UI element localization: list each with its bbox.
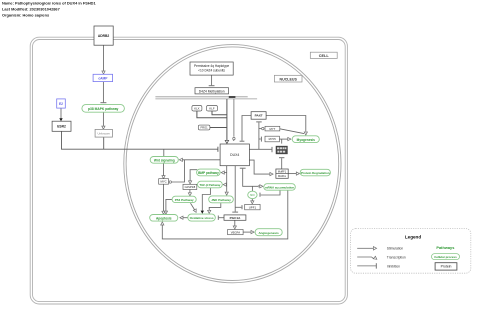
wire PAX7 to Myogenesis — [266, 116, 306, 132]
open arrow into CASP3/8 — [189, 181, 192, 184]
open arrow into P53 pathway — [188, 193, 191, 196]
wire DUX4 to MuRF1 group — [249, 160, 269, 174]
wire DUX4 inhibits dark target group — [249, 148, 271, 150]
wire DUX4 inhibits PGC1A with UPF1 branch — [234, 166, 236, 212]
svg-text:MYT: MYT — [270, 127, 276, 131]
T-bar DUX4 inhibits UPF1 — [241, 205, 243, 209]
svg-text:Pathways: Pathways — [436, 245, 454, 250]
node MYOD1 — [265, 126, 280, 131]
svg-text:Legend: Legend — [405, 234, 422, 239]
node PGC1A — [224, 215, 246, 220]
svg-text:Last Modified: 20230301042867: Last Modified: 20230301042867 — [2, 7, 60, 12]
header text — [2, 1, 96, 18]
svg-text:ESR2: ESR2 — [57, 125, 66, 129]
wire cAMP inhibits p38 — [102, 82, 104, 103]
svg-text:Oxidative stress: Oxidative stress — [190, 216, 214, 220]
svg-text:FRG1: FRG1 — [201, 126, 209, 130]
node E2 (metabolite, blue) — [57, 99, 66, 108]
node Permissive 4q Haplotype — [190, 62, 233, 75]
open arrow into BMP pathway — [221, 171, 224, 174]
svg-text:Protein Degradation: Protein Degradation — [301, 171, 330, 175]
D4Z4 repeat locus lines — [155, 97, 257, 99]
transcription arrowhead into DUX4 (circle style) — [233, 137, 235, 139]
wire MYF5 to Myogenesis — [279, 138, 288, 140]
wire PGC1A inhibits Oxidative stress — [219, 217, 224, 219]
svg-text:CELL: CELL — [319, 54, 330, 58]
svg-text:PAX7: PAX7 — [255, 114, 263, 118]
svg-text:UPF1: UPF1 — [249, 205, 257, 209]
legend stimulation row — [357, 247, 373, 249]
svg-text:Protein: Protein — [441, 265, 452, 269]
svg-text:KLF: KLF — [209, 106, 214, 110]
wire branch from inhibition line into Wnt signaling — [163, 149, 165, 156]
open arrow into VEGFA — [233, 226, 236, 229]
wire PGC1A to VEGFA — [234, 220, 236, 226]
open arrow into Apoptosis from below — [161, 222, 164, 225]
wire MYC to Apoptosis — [163, 184, 165, 211]
node ESR2 — [52, 121, 71, 131]
svg-text:Stimulation: Stimulation — [387, 247, 403, 251]
svg-text:ADRB2: ADRB2 — [98, 34, 110, 38]
open arrow into cAMP — [102, 71, 105, 74]
T-bar into NO right — [259, 193, 261, 197]
svg-text:Cellular process: Cellular process — [434, 255, 457, 259]
wire E2 to ESR2 — [60, 108, 62, 118]
open arrow into Oxidative stress from P53 (diagonal) — [193, 209, 196, 213]
open arrow into MuRF1 group — [270, 173, 273, 176]
legend transcription row — [357, 257, 373, 259]
node cAMP (metabolite, blue) — [93, 74, 113, 81]
NUCLEUS label — [274, 75, 302, 82]
wire VEGFA to Angiogenesis — [243, 231, 251, 233]
node PAX7 — [251, 112, 266, 120]
node KLX — [192, 106, 202, 112]
open arrow into Oxidative stress from JNK — [208, 210, 211, 213]
T-bar ESR2/Unknown inhibit DUX4 — [217, 147, 219, 152]
wire Permissive inhibits D4Z4 methylation — [211, 75, 213, 85]
svg-text:DUX4: DUX4 — [230, 153, 239, 157]
svg-text:Apoptosis: Apoptosis — [156, 216, 172, 220]
T-bar inhibition on p38 — [100, 102, 106, 104]
svg-text:mRNA accumulation: mRNA accumulation — [265, 186, 294, 190]
node ADRB2 — [94, 26, 113, 45]
process Myogenesis — [292, 136, 319, 143]
T-bar PGC1A inhibits Oxidative stress — [217, 216, 219, 220]
svg-text:Name: Pathophysiological roles: Name: Pathophysiological roles of DUX4 i… — [2, 1, 96, 6]
wire DUX4 to Wnt signaling with MYC branch — [182, 159, 221, 161]
pathway Wnt signaling — [150, 157, 178, 164]
svg-text:Unknown: Unknown — [97, 132, 110, 136]
nucleus (double ellipse) — [124, 45, 341, 283]
circle arrowhead into MYOD1 — [262, 127, 264, 129]
svg-text:MuRF1: MuRF1 — [278, 171, 287, 174]
wire branch tick below MYF5 line — [281, 139, 283, 143]
svg-text:E2: E2 — [59, 102, 63, 106]
T-bar DUX4 inhibits PAX7 — [256, 121, 262, 123]
wire JNK pathway to Oxidative stress — [209, 203, 221, 211]
pathway TGF-b pathway — [198, 181, 223, 188]
open arrow into Protein Degradation — [296, 172, 299, 175]
node MuRF1 / MAFbx group — [276, 169, 288, 178]
DUX4 gene tick on D4Z4 line — [229, 96, 236, 98]
pathway p38 MAPK pathway — [82, 105, 125, 113]
wire mRNA accumulation to Apoptosis (long elbow) — [162, 190, 287, 239]
wire DUX4 T-bar up / mRNA accumulation / NO riser — [243, 169, 260, 187]
wire DUX4 to TGF-b pathway — [225, 184, 227, 186]
wire mRNA accumulation inhibits NO — [261, 190, 280, 195]
open arrow into TGF-b pathway — [223, 183, 226, 186]
node D4Z4 Methylation — [195, 88, 229, 94]
svg-text:VEGFA: VEGFA — [231, 230, 240, 234]
process mRNA accumulation — [264, 184, 296, 191]
wire MuRF1 group inhibits dark target group — [281, 158, 283, 169]
circle arrowhead into MYC — [169, 181, 171, 183]
svg-text:TGF-β Pathway: TGF-β Pathway — [199, 183, 220, 187]
process Angiogenesis — [255, 229, 282, 236]
process Apoptosis — [150, 215, 178, 222]
node DUX4 — [220, 144, 249, 166]
process NO — [248, 191, 257, 198]
open arrow into JNK pathway — [225, 192, 228, 195]
wire NO to UPF1 — [251, 199, 253, 201]
svg-text:<10 D4Z4 subunits: <10 D4Z4 subunits — [198, 69, 225, 73]
node MYC — [159, 179, 169, 185]
arrow into DUX4 top (transcription main) — [225, 140, 228, 143]
svg-text:BMP pathway: BMP pathway — [198, 171, 219, 175]
wire CASP3/8 to P53 pathway — [189, 190, 191, 193]
wire second transcription line into DUX4 — [233, 99, 235, 137]
svg-text:Wnt signaling: Wnt signaling — [154, 159, 175, 163]
svg-text:CASP3/8: CASP3/8 — [185, 185, 196, 189]
T-bar PAX7 inhibits DUX4 — [240, 140, 245, 142]
legend Cellular process — [432, 254, 460, 260]
svg-text:Angiogenesis: Angiogenesis — [258, 231, 279, 235]
process Protein Degradation — [300, 169, 330, 176]
wire DUX4 inhibits PAX7, MYF5, activates MYOD1 (riser) — [258, 122, 260, 149]
svg-text:MYF5: MYF5 — [269, 137, 277, 141]
svg-text:Inhibition: Inhibition — [387, 264, 400, 268]
pathway BMP pathway — [197, 169, 221, 176]
svg-text:Transcription: Transcription — [387, 255, 406, 259]
open arrow into mRNA accumulation — [260, 185, 263, 188]
open arrow into Apoptosis from MYC line — [162, 211, 165, 214]
node FRG1 — [198, 125, 210, 130]
svg-text:NUCLEUS: NUCLEUS — [280, 77, 298, 81]
open arrow into Apoptosis from Oxidative stress — [180, 216, 183, 219]
wire TGF-b pathway to Oxidative stress — [202, 188, 210, 211]
open arrow into Unknown — [102, 126, 105, 129]
wire MuRF1 group to Protein Degradation — [288, 173, 296, 175]
pathway P53 pathway — [172, 196, 196, 202]
T-bar inhibition on D4Z4 methylation — [209, 85, 215, 87]
wire Wnt signaling to MYC — [163, 163, 165, 175]
wire BMP pathway to CASP3/8 — [190, 170, 197, 181]
svg-text:P53 Pathway: P53 Pathway — [175, 198, 194, 202]
svg-text:PGC1A: PGC1A — [230, 216, 241, 220]
open arrow into Myogenesis from top — [304, 132, 307, 135]
process Oxidative stress — [188, 214, 216, 221]
legend Protein — [435, 263, 457, 270]
wire MYOD1 to Myogenesis — [280, 129, 304, 134]
wire ADRB2 to cAMP — [103, 45, 105, 70]
open arrow into Wnt signaling — [179, 158, 182, 161]
node dark target group — [276, 146, 287, 154]
T-bar NO inhibits DUX4 (pointing up under DUX4) — [240, 167, 246, 169]
T-bar DUX4 inhibits dark target group — [271, 147, 273, 152]
svg-text:p38 MAPK pathway: p38 MAPK pathway — [88, 107, 119, 111]
open arrow into MYC from Wnt — [162, 176, 165, 179]
T-bar DUX4 inhibits PGC1A — [232, 211, 238, 213]
wire DUX4 to BMP pathway — [223, 172, 227, 174]
svg-text:D4Z4 Methylation: D4Z4 Methylation — [199, 89, 225, 93]
svg-text:Organism: Homo sapiens: Organism: Homo sapiens — [2, 13, 49, 18]
legend inhibition row — [357, 265, 376, 267]
node VEGFA — [228, 230, 244, 235]
svg-text:MYC: MYC — [160, 180, 166, 184]
open arrow into UPF1 from NO — [251, 201, 254, 204]
open arrow into Apoptosis from P53 — [164, 211, 167, 214]
svg-text:Permissive 4q Haplotype: Permissive 4q Haplotype — [194, 64, 229, 68]
cell compartment (double rounded rect) — [30, 37, 347, 304]
CELL label — [310, 52, 337, 58]
wire P53 pathway to Apoptosis — [166, 199, 172, 211]
filled arrow into ESR2 — [59, 118, 62, 121]
svg-text:MAFbx: MAFbx — [278, 175, 287, 178]
wire P53 pathway to Oxidative stress (diagonal) — [191, 203, 196, 211]
node Unknown (gray) — [95, 129, 112, 137]
svg-text:cAMP: cAMP — [98, 76, 108, 80]
svg-text:KLX: KLX — [194, 106, 199, 110]
svg-text:JNK Pathway: JNK Pathway — [211, 198, 231, 202]
wire DUX4 to JNK pathway — [226, 166, 228, 192]
node KLF — [207, 106, 218, 112]
wire p38 to Unknown — [102, 112, 104, 126]
wire Oxidative stress to Apoptosis — [182, 217, 188, 219]
T-bar DUX4 inhibits MYF5 — [260, 137, 262, 142]
T-bar MuRF1 inhibits dark group — [279, 157, 284, 159]
open arrow into Angiogenesis — [251, 231, 254, 234]
node CASP3/8 — [183, 184, 197, 189]
open arrow into Myogenesis from MYF5 — [288, 138, 291, 141]
filled arrow into Oxidative stress from TGF-b — [201, 211, 204, 214]
node MYF5 — [265, 136, 279, 142]
wire KLX/KLF/PXX merge into DUX4 transcription line — [197, 99, 227, 141]
wire ESR2 and Unknown inhibit DUX4 (merged, darker) — [62, 131, 218, 149]
wire PAX7 inhibits DUX4 — [242, 116, 251, 141]
pathway JNK pathway — [209, 196, 234, 203]
node UPF1 — [245, 204, 260, 209]
svg-text:Myogenesis: Myogenesis — [297, 138, 315, 142]
